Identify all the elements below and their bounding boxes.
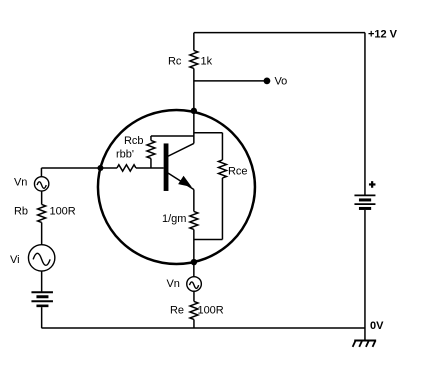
wire right rail lower xyxy=(364,210,366,341)
wire Rb to Vi xyxy=(41,222,43,244)
ground xyxy=(353,340,377,346)
svg-text:Vo: Vo xyxy=(274,75,287,87)
wire Vi to battery B1 xyxy=(41,271,43,291)
resistor rbb' xyxy=(100,148,163,171)
resistor 1/gm xyxy=(162,211,198,229)
svg-text:1k: 1k xyxy=(200,55,212,67)
wire collector to Rce (right horizontal) xyxy=(194,132,223,134)
svg-text:Rcb: Rcb xyxy=(124,135,144,147)
wire Vn to Rb xyxy=(41,191,43,204)
svg-text:Vn: Vn xyxy=(14,176,27,188)
svg-text:1/gm: 1/gm xyxy=(162,213,186,225)
svg-text:Rce: Rce xyxy=(228,165,248,177)
wire base (left horizontal) xyxy=(41,167,100,169)
resistor Rc xyxy=(168,33,213,111)
wire Vo branch xyxy=(194,80,267,82)
wire emitter node to Vn source xyxy=(193,261,195,276)
node emitter (dot) xyxy=(191,259,197,265)
svg-text:+12 V: +12 V xyxy=(368,28,398,40)
voltage source Vn (base noise) xyxy=(14,176,49,191)
svg-text:Re: Re xyxy=(170,304,184,316)
resistor Rce xyxy=(194,133,248,240)
node base (dot) xyxy=(97,165,103,171)
transistor Q1 xyxy=(164,143,194,191)
wire left rail to Vn xyxy=(40,168,42,177)
voltage source Vn (emitter noise) xyxy=(166,277,201,292)
svg-text:100R: 100R xyxy=(197,304,223,316)
wire right rail upper xyxy=(364,33,366,195)
wire top rail xyxy=(194,32,365,34)
transistor Q1 model boundary circle xyxy=(98,110,255,264)
wire bottom rail xyxy=(41,327,365,329)
wire Re to bottom rail xyxy=(193,319,195,328)
resistor Rcb xyxy=(124,135,155,168)
wire battery B1 to bottom rail xyxy=(41,307,43,328)
wire emitter vertical xyxy=(193,189,195,211)
svg-text:rbb': rbb' xyxy=(116,148,134,160)
svg-text:100R: 100R xyxy=(49,205,75,217)
svg-text:Rc: Rc xyxy=(168,55,182,67)
wire collector to Rcb (left horizontal) xyxy=(151,135,194,137)
svg-text:Rb: Rb xyxy=(14,205,28,217)
resistor Rb xyxy=(14,204,76,222)
battery B2 (right, supply) xyxy=(354,181,375,208)
svg-text:Vn: Vn xyxy=(166,278,179,290)
node collector (dot) xyxy=(191,108,197,114)
resistor Re xyxy=(170,301,224,319)
svg-text:0V: 0V xyxy=(370,320,384,332)
node Vo xyxy=(264,75,288,87)
svg-text:Vi: Vi xyxy=(10,254,20,266)
wire collector vertical xyxy=(193,111,195,144)
battery B1 (left) xyxy=(31,292,53,306)
wire emitter to bottom node xyxy=(193,229,195,261)
source Vi xyxy=(10,245,55,271)
wire Vn to Re xyxy=(193,291,195,301)
